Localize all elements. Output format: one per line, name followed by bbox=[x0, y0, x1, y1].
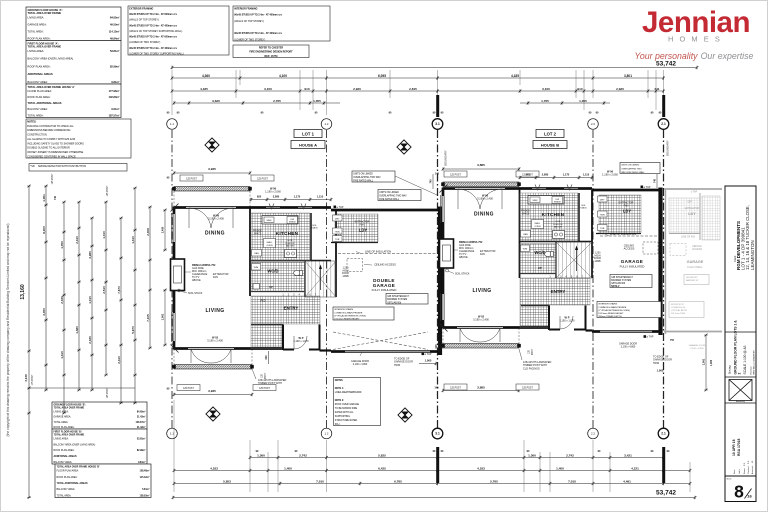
svg-text:DRY: DRY bbox=[600, 199, 605, 201]
svg-text:BALCONY AREA:: BALCONY AREA: bbox=[28, 107, 49, 111]
svg-text:925: 925 bbox=[526, 172, 531, 176]
house A wc tiled floor bbox=[251, 262, 305, 292]
svg-text:⌀ TAP: ⌀ TAP bbox=[647, 336, 654, 339]
svg-text:NOTES:: NOTES: bbox=[27, 120, 36, 123]
svg-text:REFER TO CHESTER: REFER TO CHESTER bbox=[259, 46, 283, 49]
svg-text:5,765: 5,765 bbox=[490, 479, 498, 483]
house B porch walls bbox=[549, 306, 586, 331]
party wall gridline 3.1 bottom marker bbox=[432, 428, 443, 439]
bottom dimension row B bbox=[173, 466, 692, 472]
left dimension line 6 bbox=[117, 217, 123, 405]
svg-text:5,825: 5,825 bbox=[378, 453, 386, 457]
svg-text:EXTRACTOR: EXTRACTOR bbox=[685, 207, 699, 210]
house B garage door opening bbox=[600, 330, 652, 332]
svg-text:LINE OF INSULATION: LINE OF INSULATION bbox=[610, 232, 636, 236]
house A dining window label bbox=[208, 214, 224, 221]
svg-text:UNITS ON LINKED: UNITS ON LINKED bbox=[621, 165, 640, 167]
house B corner chamfer marks bbox=[440, 185, 448, 332]
svg-text:4,183: 4,183 bbox=[477, 466, 485, 470]
house A living french doors bbox=[188, 349, 234, 364]
house B dw space bbox=[552, 197, 563, 204]
party wall B-C top thickness bar bbox=[662, 95, 665, 117]
svg-text:K/HOOD: K/HOOD bbox=[554, 224, 563, 226]
party wall gridline 2.1 bbox=[663, 130, 665, 428]
svg-text:BALCONY AREA (OVER LIVING AREA: BALCONY AREA (OVER LIVING AREA) bbox=[28, 57, 74, 61]
svg-text:GROUND FLOOR HOUSE 'B':: GROUND FLOOR HOUSE 'B': bbox=[54, 405, 87, 407]
house B stair treads bbox=[556, 242, 592, 278]
house A dry cupboard bbox=[333, 215, 343, 221]
house B kitchen bottom wall bbox=[520, 241, 592, 243]
svg-text:TOTAL AREA:: TOTAL AREA: bbox=[28, 29, 44, 33]
svg-text:UP: UP bbox=[538, 266, 542, 270]
svg-text:140: 140 bbox=[434, 387, 439, 390]
house A basin bbox=[253, 284, 260, 290]
svg-text:53,742: 53,742 bbox=[656, 60, 676, 67]
unit C labels (gray) bbox=[681, 202, 704, 282]
svg-text:CLD FACINGS: CLD FACINGS bbox=[523, 367, 540, 370]
svg-text:(the copyright of this drawing: (the copyright of this drawing remains t… bbox=[6, 224, 10, 437]
svg-text:(LOWER OF TWO STOREY SUPPORTIN: (LOWER OF TWO STOREY SUPPORTING WALL) bbox=[129, 52, 184, 55]
svg-text:FLOOR PLAN AREA:: FLOOR PLAN AREA: bbox=[28, 89, 53, 93]
house B dining window label bbox=[477, 194, 493, 201]
house A left wall window upper bbox=[172, 213, 176, 243]
party wall A-B top thickness bar bbox=[436, 95, 439, 117]
svg-text:NOTE 1:: NOTE 1: bbox=[335, 388, 344, 390]
area schedule house A first floor bbox=[26, 41, 121, 85]
svg-text:1,110: 1,110 bbox=[583, 172, 590, 176]
svg-text:2,080: 2,080 bbox=[273, 194, 280, 198]
house A entry bottom inner wall bbox=[251, 324, 283, 326]
svg-text:FULLY INSUL: FULLY INSUL bbox=[688, 266, 704, 269]
svg-text:3,935: 3,935 bbox=[208, 389, 216, 393]
svg-text:925: 925 bbox=[257, 194, 262, 198]
svg-text:2,030: 2,030 bbox=[88, 336, 92, 344]
svg-text:3,130: 3,130 bbox=[24, 374, 28, 382]
house A tub bbox=[333, 236, 343, 242]
party wall A-B bottom thickness bar bbox=[436, 447, 439, 483]
lot boundary gridline 2.2 bottom marker bbox=[588, 428, 599, 439]
svg-text:1,175: 1,175 bbox=[563, 172, 570, 176]
svg-text:49.50m²: 49.50m² bbox=[110, 22, 120, 26]
svg-text:3,280: 3,280 bbox=[88, 251, 92, 259]
svg-text:3,450: 3,450 bbox=[42, 308, 46, 316]
house A soil stack note bbox=[178, 289, 203, 295]
svg-text:LIVING: LIVING bbox=[472, 288, 491, 294]
house A living window label bbox=[207, 336, 223, 343]
house B left wall window lower bbox=[441, 293, 445, 321]
compass symbol top left bbox=[205, 138, 219, 152]
unit C top wall (gray) bbox=[664, 188, 722, 190]
house B porch-garage wall stub bbox=[586, 329, 593, 331]
svg-text:ROOF PLAN AREA:: ROOF PLAN AREA: bbox=[54, 449, 75, 452]
svg-text:ABOVE: ABOVE bbox=[554, 226, 562, 229]
house B garage bottom wall bbox=[592, 330, 660, 333]
house A wall oven label bbox=[264, 239, 276, 248]
svg-text:FRIDGE: FRIDGE bbox=[253, 231, 262, 233]
svg-text:9.61m²: 9.61m² bbox=[111, 107, 119, 111]
svg-text:125 POST: 125 POST bbox=[107, 387, 109, 398]
svg-text:1,480: 1,480 bbox=[75, 326, 79, 334]
unit C left wall (gray) bbox=[665, 189, 667, 334]
top extension lines bbox=[172, 70, 697, 115]
Jennian Homes logo bbox=[634, 6, 753, 61]
house B window label W06 top bbox=[602, 170, 618, 177]
unit C gb note (gray) bbox=[684, 275, 709, 285]
lot 2 label bbox=[536, 130, 564, 138]
svg-text:FULLY INSULATED: FULLY INSULATED bbox=[372, 288, 397, 292]
fire rated wall note 3 (B-C) bbox=[620, 163, 660, 174]
title block outer frame bbox=[725, 186, 756, 502]
house A entry-stair wall bbox=[304, 261, 306, 297]
lot boundary gridline 1.1 top marker bbox=[167, 119, 178, 130]
svg-text:84.65m²: 84.65m² bbox=[110, 15, 120, 19]
house B entry bottom inner wall bbox=[521, 305, 549, 307]
svg-text:BUILDING CONTRACTOR TO CHECK A: BUILDING CONTRACTOR TO CHECK ALL bbox=[27, 125, 74, 128]
svg-text:Drawn:: Drawn: bbox=[743, 468, 746, 474]
interior stairs note A bbox=[333, 307, 394, 320]
svg-text:114.15m²: 114.15m² bbox=[109, 29, 120, 33]
garage B label bbox=[620, 259, 645, 269]
svg-text:HOUSE A: HOUSE A bbox=[299, 143, 317, 148]
house A porch label bbox=[293, 336, 309, 343]
svg-text:4,185: 4,185 bbox=[200, 87, 208, 91]
house B stair-garage wall bbox=[591, 190, 593, 278]
left dimension line 5 bbox=[102, 201, 108, 377]
house B porch door bbox=[560, 316, 573, 329]
smoke detector note bbox=[29, 164, 127, 172]
svg-text:TOTAL ADDITIONAL AREAS: TOTAL ADDITIONAL AREAS bbox=[28, 101, 62, 105]
svg-text:POST: POST bbox=[532, 348, 534, 355]
house A kitchen windows bbox=[266, 204, 312, 210]
svg-text:ROOF PLAN AREA:: ROOF PLAN AREA: bbox=[54, 426, 75, 429]
svg-text:HOUSE B: HOUSE B bbox=[541, 143, 559, 148]
svg-text:7,105: 7,105 bbox=[146, 314, 150, 322]
svg-text:53,742: 53,742 bbox=[656, 490, 676, 497]
svg-text:UNITS ON LINKED: UNITS ON LINKED bbox=[379, 192, 399, 194]
compass symbol bottom left bbox=[206, 407, 220, 421]
svg-text:SOIL STACK: SOIL STACK bbox=[188, 292, 203, 295]
house B kitchen right wall bbox=[578, 193, 580, 241]
svg-text:ENTRY: ENTRY bbox=[551, 289, 566, 294]
svg-text:S.S.: S.S. bbox=[748, 460, 750, 464]
house A dining french doors bbox=[186, 207, 236, 228]
svg-text:1,360: 1,360 bbox=[257, 453, 265, 457]
house A dw space bbox=[287, 217, 298, 224]
svg-text:191.5mm RISER HEIGHT: 191.5mm RISER HEIGHT bbox=[334, 318, 360, 320]
svg-text:CONSIDERED CENTERED IN WALL SP: CONSIDERED CENTERED IN WALL SPACE bbox=[27, 155, 76, 158]
svg-text:3,801: 3,801 bbox=[624, 74, 632, 78]
svg-text:*SD SMOKE DETECTOR WITH HU: *SD SMOKE DETECTOR WITH HUSH BUTTON bbox=[30, 165, 86, 168]
svg-text:3,935: 3,935 bbox=[208, 167, 216, 171]
svg-text:LDY: LDY bbox=[623, 209, 632, 214]
svg-text:175 POST: 175 POST bbox=[32, 374, 34, 385]
house B left wall bbox=[442, 188, 445, 329]
svg-text:7,010: 7,010 bbox=[316, 479, 324, 483]
svg-text:NOTES: NOTES bbox=[335, 380, 343, 382]
svg-text:LINE OF INS: LINE OF INS bbox=[681, 236, 695, 239]
house B wm box bbox=[521, 245, 530, 252]
house A stair-garage wall bbox=[335, 210, 337, 297]
svg-text:⌀ TAP: ⌀ TAP bbox=[425, 353, 432, 356]
svg-text:FLOOR PLAN AREA:: FLOOR PLAN AREA: bbox=[57, 470, 80, 473]
house A tap symbol bbox=[334, 206, 344, 209]
svg-text:6,785: 6,785 bbox=[394, 479, 402, 483]
leader fire note 1 to party wall bbox=[395, 176, 437, 195]
svg-text:⌀ TAP: ⌀ TAP bbox=[337, 206, 344, 209]
house B deck dashed outline bbox=[442, 187, 444, 189]
house B kitchen windows bbox=[532, 185, 578, 191]
svg-text:1,400: 1,400 bbox=[284, 466, 292, 470]
svg-text:RATED WITH ALL: RATED WITH ALL bbox=[335, 411, 354, 414]
house B dry cupboard bbox=[598, 196, 608, 202]
svg-text:4,100: 4,100 bbox=[279, 74, 287, 78]
svg-text:GARAGE DOOR: GARAGE DOOR bbox=[689, 344, 706, 347]
svg-text:125 POST: 125 POST bbox=[186, 179, 197, 181]
unit C laundry tiled floor (gray) bbox=[669, 198, 700, 233]
svg-text:GIB INTERT: GIB INTERT bbox=[686, 277, 698, 279]
svg-text:LINE OF INSULATION: LINE OF INSULATION bbox=[365, 249, 391, 253]
house A top wall (dining) bbox=[174, 206, 251, 209]
svg-text:8,300: 8,300 bbox=[42, 226, 46, 234]
svg-text:INTERIOR ST: INTERIOR ST bbox=[671, 304, 685, 306]
svg-text:HIGH: HIGH bbox=[343, 270, 349, 272]
svg-text:3,190 x 2,400: 3,190 x 2,400 bbox=[208, 217, 224, 221]
house B tap symbol bottom bbox=[644, 335, 654, 338]
svg-text:1.1: 1.1 bbox=[170, 122, 174, 126]
house B kitchen dimension row bbox=[519, 172, 594, 179]
svg-text:WALL: WALL bbox=[535, 222, 542, 225]
lot boundary gridline 1.1 bbox=[171, 130, 173, 428]
house B veranda post dimension top bbox=[435, 163, 539, 177]
svg-text:BARRIER SYSTEM: BARRIER SYSTEM bbox=[387, 298, 407, 301]
house B garage door trim note bbox=[653, 356, 672, 373]
svg-text:Revision:: Revision: bbox=[751, 366, 753, 375]
house A porch walls bbox=[283, 325, 320, 351]
svg-text:TOTAL AREA OVER FRAME: TOTAL AREA OVER FRAME bbox=[28, 11, 62, 15]
svg-text:(WALLS OF TOP STOREY): (WALLS OF TOP STOREY) bbox=[129, 19, 159, 22]
left small dims near wall bbox=[161, 209, 167, 347]
svg-text:4,360: 4,360 bbox=[202, 74, 210, 78]
house A hob unit bbox=[285, 250, 297, 258]
house B laundry labels bbox=[619, 202, 634, 214]
svg-text:910: 910 bbox=[577, 87, 582, 91]
svg-text:PAN: PAN bbox=[523, 233, 528, 236]
svg-text:2,080: 2,080 bbox=[542, 172, 549, 176]
house B left wall window upper bbox=[441, 195, 445, 223]
svg-text:TWIN: TWIN bbox=[600, 214, 606, 216]
svg-text:TOTAL AREA:: TOTAL AREA: bbox=[57, 494, 72, 497]
svg-text:CEILING ACCESS: CEILING ACCESS bbox=[374, 263, 396, 267]
area schedule house A ground floor bbox=[26, 7, 121, 41]
svg-text:2,742: 2,742 bbox=[299, 453, 307, 457]
svg-text:1,055: 1,055 bbox=[313, 99, 321, 103]
svg-text:4,183: 4,183 bbox=[210, 466, 218, 470]
unit C laundry wall (gray) bbox=[669, 233, 700, 235]
svg-text:W/M: W/M bbox=[254, 267, 259, 269]
svg-text:2,815: 2,815 bbox=[409, 87, 417, 91]
svg-text:GARAGE: GARAGE bbox=[687, 260, 704, 264]
svg-text:140: 140 bbox=[435, 173, 440, 176]
house B laundry tiled floor bbox=[599, 195, 641, 233]
svg-text:910: 910 bbox=[304, 87, 309, 91]
svg-text:ROOF PLAN AREA:: ROOF PLAN AREA: bbox=[28, 36, 51, 40]
svg-text:STACK: STACK bbox=[580, 207, 587, 210]
svg-text:HOMES: HOMES bbox=[668, 35, 726, 44]
party wall gridline 2.1 top marker bbox=[658, 119, 669, 130]
svg-text:BOUNDARY: BOUNDARY bbox=[444, 150, 448, 166]
house A kitchen top wall bbox=[251, 206, 331, 209]
svg-text:INCLUDING SAFETY GLASS TO SHOW: INCLUDING SAFETY GLASS TO SHOWER DOORS bbox=[27, 142, 84, 145]
svg-text:Our expertise: Our expertise bbox=[701, 51, 754, 61]
svg-text:1.2: 1.2 bbox=[325, 432, 329, 436]
house B garage top wall bbox=[592, 189, 660, 192]
house A stair tread numbers bbox=[282, 293, 316, 296]
gb intertenancy note B bbox=[610, 275, 652, 288]
svg-text:LDY: LDY bbox=[359, 228, 368, 233]
svg-text:ROOF PLAN AREA:: ROOF PLAN AREA: bbox=[57, 476, 78, 479]
svg-text:LDY: LDY bbox=[688, 212, 696, 216]
svg-text:SINK: SINK bbox=[266, 220, 272, 222]
svg-text:90x45 STUDS UP TO 2.4m - AT 60: 90x45 STUDS UP TO 2.4m - AT 600mm crs bbox=[129, 13, 177, 16]
svg-text:HIGH: HIGH bbox=[595, 255, 601, 257]
svg-text:REF: 16779: REF: 16779 bbox=[265, 55, 279, 58]
svg-text:DIMENSIONS BEFORE COMMENCING: DIMENSIONS BEFORE COMMENCING bbox=[27, 129, 70, 132]
svg-text:OFFSET JOINERY IS DIMENSIONED: OFFSET JOINERY IS DIMENSIONED OTHERWISE bbox=[27, 151, 83, 154]
fire engineering report reference box bbox=[233, 45, 309, 58]
svg-text:WC/D: WC/D bbox=[534, 250, 545, 255]
svg-text:BALCONY AREA:: BALCONY AREA: bbox=[57, 488, 76, 491]
svg-text:3.1: 3.1 bbox=[435, 432, 440, 436]
house A laundry wall bbox=[331, 242, 378, 244]
party wall A-B fire rated bbox=[438, 207, 442, 356]
svg-text:DINING: DINING bbox=[205, 231, 225, 237]
svg-text:KITCHEN: KITCHEN bbox=[276, 231, 299, 236]
svg-text:FAN: FAN bbox=[360, 223, 365, 226]
svg-text:1,060: 1,060 bbox=[657, 369, 664, 373]
bottom notes box bbox=[334, 378, 381, 426]
svg-text:3,885: 3,885 bbox=[477, 163, 485, 167]
party wall B-C bottom thickness bar bbox=[662, 447, 665, 483]
svg-text:ALL GLAZING TO COMPLY WITH NZS: ALL GLAZING TO COMPLY WITH NZS 4223 bbox=[27, 138, 76, 141]
svg-text:1,061: 1,061 bbox=[161, 313, 165, 320]
svg-text:STACK: STACK bbox=[311, 227, 318, 230]
svg-text:Amended:: Amended: bbox=[751, 465, 754, 474]
overall top dimension 53,742 bbox=[171, 60, 699, 69]
svg-text:125 POST: 125 POST bbox=[183, 388, 194, 390]
svg-text:1,050: 1,050 bbox=[60, 241, 64, 249]
house A stair up arrow bbox=[269, 265, 322, 291]
svg-text:RSA 17018: RSA 17018 bbox=[737, 438, 741, 456]
unit C ceiling access dashed (gray) bbox=[670, 244, 686, 256]
svg-text:280mm TREAD DEPTH: 280mm TREAD DEPTH bbox=[598, 315, 622, 318]
svg-text:GIB INTERTENANCY: GIB INTERTENANCY bbox=[611, 276, 633, 279]
house B stair up arrow bbox=[538, 246, 578, 272]
svg-text:ENTRY: ENTRY bbox=[284, 306, 299, 311]
svg-text:ADDITIONAL AREAS: ADDITIONAL AREAS bbox=[28, 72, 53, 76]
svg-text:SCALE 1:100 @ A3: SCALE 1:100 @ A3 bbox=[743, 345, 747, 374]
svg-text:125 POST: 125 POST bbox=[259, 388, 270, 390]
svg-text:COMMON & M: COMMON & M bbox=[671, 307, 685, 309]
house A pan label bbox=[252, 250, 262, 257]
house A fireplace bay bbox=[171, 259, 185, 291]
svg-text:OVERLAPPING TWO: OVERLAPPING TWO bbox=[621, 167, 642, 170]
svg-text:BOUNDARY: BOUNDARY bbox=[666, 140, 670, 156]
svg-text:⌀ TAP: ⌀ TAP bbox=[644, 186, 651, 189]
house B wall oven label bbox=[532, 220, 544, 229]
ceiling access A bbox=[347, 259, 396, 272]
party wall gridline 2.1 bottom marker bbox=[658, 428, 669, 439]
svg-text:NOTE 2:: NOTE 2: bbox=[335, 400, 344, 402]
svg-text:SPACE: SPACE bbox=[289, 220, 297, 223]
svg-text:SPACE: SPACE bbox=[522, 212, 530, 215]
svg-text:125 POST: 125 POST bbox=[107, 185, 109, 196]
svg-text:GARAGE AREA:: GARAGE AREA: bbox=[28, 22, 47, 26]
svg-text:6,425: 6,425 bbox=[378, 466, 386, 470]
svg-text:2: 2 bbox=[738, 373, 742, 375]
bottom extension lines bbox=[173, 400, 690, 492]
svg-text:6,095: 6,095 bbox=[378, 74, 386, 78]
house B deck strip bottom bbox=[441, 344, 519, 349]
svg-text:1,360: 1,360 bbox=[528, 453, 536, 457]
svg-text:WC/D: WC/D bbox=[267, 269, 278, 274]
house A window label W06 top bbox=[265, 187, 281, 194]
house B top wall (dining) bbox=[443, 187, 520, 190]
svg-text:2.2: 2.2 bbox=[591, 122, 595, 126]
svg-text:1,200: 1,200 bbox=[595, 253, 601, 255]
house B entry-stair wall bbox=[555, 242, 557, 278]
svg-text:1,065: 1,065 bbox=[425, 359, 432, 363]
house A wm box bbox=[252, 264, 261, 271]
svg-text:1,061: 1,061 bbox=[702, 358, 706, 365]
svg-text:FAN: FAN bbox=[624, 204, 629, 207]
svg-text:JAMB: JAMB bbox=[342, 275, 349, 278]
svg-text:WAY FIRE RATED WALL: WAY FIRE RATED WALL bbox=[621, 171, 645, 174]
line of insulation B bbox=[600, 232, 658, 236]
vertical mini dim 740 at party wall B-C bbox=[654, 174, 658, 188]
svg-text:DOUBLE GLAZING TO ALL EXTERIOR: DOUBLE GLAZING TO ALL EXTERIOR bbox=[27, 147, 70, 150]
svg-text:90x45 STUDS UP TO 2.4m - AT 60: 90x45 STUDS UP TO 2.4m - AT 600mm crs bbox=[129, 36, 177, 39]
house A entry tiled floor lower bbox=[251, 324, 282, 349]
house A veranda post dimension bottom bbox=[167, 385, 276, 397]
party wall gridline 3.1 bbox=[437, 130, 439, 428]
house A garage tap bottom bbox=[422, 353, 432, 356]
unit C bottom wall (gray) bbox=[664, 331, 722, 333]
svg-text:(TYPICAL BETWEEN FLOORS): (TYPICAL BETWEEN FLOORS) bbox=[334, 314, 366, 317]
svg-text:TOTAL AREA OVER FRAME HOUSE 'A: TOTAL AREA OVER FRAME HOUSE 'A' bbox=[28, 85, 76, 89]
svg-text:3,190 x 2,400: 3,190 x 2,400 bbox=[473, 318, 489, 322]
house A garage door header cross bbox=[333, 332, 428, 350]
svg-text:2.1: 2.1 bbox=[661, 432, 666, 436]
svg-text:90x45 STUDS UP TO 2.4m - AT 40: 90x45 STUDS UP TO 2.4m - AT 400mm crs bbox=[129, 47, 177, 50]
svg-text:191.5mm RISER HEIGHT: 191.5mm RISER HEIGHT bbox=[598, 313, 624, 315]
svg-text:611: 611 bbox=[655, 87, 660, 91]
svg-text:1,765: 1,765 bbox=[541, 99, 549, 103]
svg-text:SINK: SINK bbox=[532, 200, 538, 202]
house A label bbox=[291, 141, 325, 149]
svg-text:OVEN: OVEN bbox=[266, 245, 273, 247]
svg-text:3,620: 3,620 bbox=[212, 99, 220, 103]
svg-text:2,409: 2,409 bbox=[146, 228, 150, 236]
svg-text:SOIL STACK: SOIL STACK bbox=[455, 273, 470, 276]
svg-text:187.57m²: 187.57m² bbox=[109, 113, 120, 117]
svg-text:1,200: 1,200 bbox=[343, 268, 349, 270]
unit C kitchen floor (gray) bbox=[702, 196, 720, 240]
house A deck strip top bbox=[174, 187, 250, 192]
svg-text:FULLY INSULATED: FULLY INSULATED bbox=[620, 265, 645, 269]
svg-text:Date:: Date: bbox=[733, 469, 736, 474]
svg-text:PAN: PAN bbox=[254, 252, 259, 255]
svg-text:TUB: TUB bbox=[335, 239, 340, 241]
